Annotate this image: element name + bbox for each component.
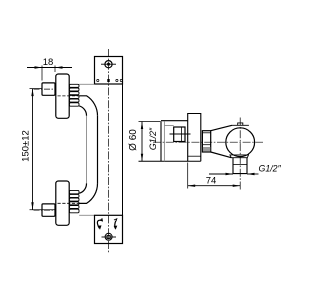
top plate screw square	[107, 63, 110, 66]
dimension 18 line	[27, 67, 72, 69]
svg-text:Ø 60: Ø 60	[128, 129, 139, 151]
dimension 150±12 bottom arrow	[31, 202, 33, 210]
handle grip tab	[238, 123, 243, 125]
dimension 74 left extension	[187, 163, 189, 189]
dimension 74 right arrow	[233, 185, 241, 187]
section B internal line	[188, 155, 201, 157]
inlet axis line	[170, 133, 191, 135]
dimension 150±12 line	[32, 89, 34, 210]
outlet nipple thread line	[233, 164, 247, 166]
bottom pipe hidden wall dashed	[58, 202, 80, 204]
diameter 60 bottom arrow	[141, 154, 143, 162]
right view washer line	[164, 125, 173, 127]
handle cone bottom slant	[211, 152, 232, 158]
bottom plate flow arrow right	[115, 221, 116, 229]
svg-text:18: 18	[43, 57, 54, 68]
handle nut lower line	[202, 144, 210, 146]
top escutcheon	[56, 74, 69, 118]
top plate hole far right	[120, 79, 122, 81]
bottom thread ribs	[69, 190, 79, 212]
dimension 74 line	[188, 185, 241, 187]
top pipe hidden wall dashed	[58, 95, 80, 97]
top plate hole left	[97, 79, 99, 81]
handle circle	[226, 128, 255, 157]
dimension 150±12 top arrow	[31, 89, 33, 97]
bottom plate flow arrow left	[97, 220, 102, 228]
top plate hole right	[116, 79, 118, 81]
bottom plate screw square	[107, 235, 110, 238]
dimension 150±12 top extension line	[30, 88, 42, 90]
dimension 18 extension line right	[54, 66, 56, 73]
vertical centerline of bar	[108, 49, 110, 253]
bottom plate screw circle	[105, 233, 112, 240]
diameter 60 top arrow	[141, 122, 143, 130]
right view body section B	[188, 114, 201, 162]
top pipe top wall	[79, 83, 94, 85]
top bend inner arc	[79, 106, 86, 116]
svg-text:G1/2″: G1/2″	[148, 127, 158, 150]
top plate screw circle	[105, 61, 112, 68]
dimension 150±12 bottom extension line	[30, 209, 56, 211]
bottom union nut	[42, 204, 55, 216]
handle nut gray band	[203, 147, 210, 151]
diameter 60 top extension line	[139, 121, 161, 123]
svg-text:74: 74	[206, 176, 217, 187]
top wall plate	[95, 57, 123, 85]
top union nut	[42, 83, 55, 95]
right view inlet union	[174, 127, 185, 142]
outlet collar	[230, 155, 249, 158]
body bottom line with extension	[139, 160, 201, 162]
inlet union divider	[181, 127, 183, 142]
svg-text:150±12: 150±12	[21, 130, 32, 162]
top bend outer wall	[79, 96, 97, 116]
bottom wall plate	[95, 215, 123, 243]
pipe left wall	[86, 116, 88, 184]
outlet G1/2 right pointer	[247, 173, 259, 175]
top plate center pin	[107, 79, 109, 82]
bottom valve axis line	[34, 209, 57, 211]
right view escutcheon edge-on	[160, 122, 162, 162]
bottom bend outer wall	[79, 183, 97, 203]
top thread ribs	[69, 84, 79, 106]
handle top line	[232, 124, 249, 126]
outlet G1/2 left pointer	[209, 173, 233, 175]
handle cone top slant	[211, 125, 232, 130]
wall bar right edge	[122, 84, 124, 215]
top plate screw cross tick	[101, 63, 116, 65]
handle nut top line	[202, 132, 210, 134]
right view body section A top	[161, 120, 188, 122]
dimension 18 extension line left	[41, 66, 43, 81]
dimension 74 left arrow	[188, 185, 196, 187]
handle nut	[202, 131, 210, 152]
bottom bend inner arc	[79, 183, 86, 193]
dimension 18 right arrow	[55, 66, 63, 68]
diameter 60 dimension line	[141, 122, 143, 162]
bottom pipe bottom wall	[79, 214, 94, 216]
svg-text:G1/2″: G1/2″	[259, 164, 282, 174]
bottom escutcheon	[56, 181, 69, 225]
bottom plate screw cross tick	[102, 236, 117, 238]
top valve axis line	[34, 88, 57, 90]
handle circle vertical centerline	[239, 118, 241, 190]
dimension 18 left arrow	[35, 66, 43, 68]
outlet nipple	[233, 158, 247, 174]
pipe right wall	[97, 116, 99, 184]
main axis centerline	[153, 141, 263, 143]
